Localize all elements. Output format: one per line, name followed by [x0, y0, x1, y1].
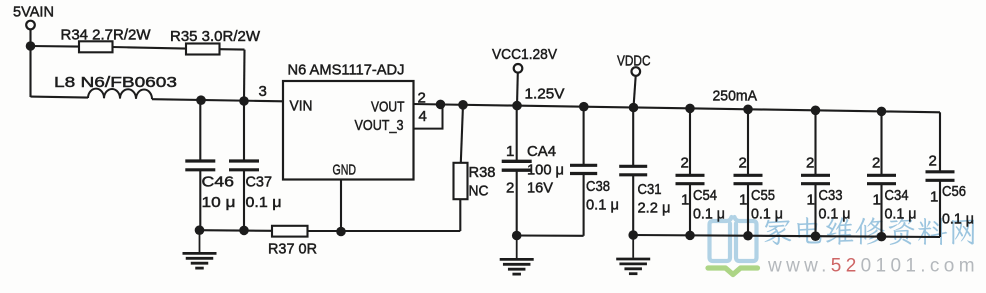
node: pin4 join — [436, 100, 446, 110]
svg-text:C55: C55 — [751, 187, 775, 204]
svg-text:2: 2 — [806, 155, 814, 172]
wire: VOUT pin 2 to output rail — [414, 104, 941, 112]
capacitor C54 — [676, 108, 705, 235]
svg-text:C46: C46 — [202, 173, 235, 190]
wire: L8 to VIN pin 3 — [152, 99, 283, 101]
svg-text:250mA: 250mA — [713, 88, 758, 105]
capacitor C38 — [570, 107, 597, 236]
svg-text:1: 1 — [930, 189, 938, 206]
watermark logo: green base — [708, 268, 758, 275]
svg-text:0.1 μ: 0.1 μ — [819, 205, 851, 222]
wire: C46/C37 node to R37 — [200, 229, 273, 232]
node: C37 ground junction — [239, 226, 249, 236]
svg-text:L8 N6/FB0603: L8 N6/FB0603 — [54, 74, 177, 91]
svg-text:C54: C54 — [693, 187, 717, 204]
capacitor C46 — [185, 100, 215, 230]
node: CA4 ground junction — [512, 231, 522, 241]
wire: node to R34 — [31, 45, 80, 48]
svg-text:16V: 16V — [527, 180, 553, 197]
svg-text:1.25V: 1.25V — [525, 86, 565, 103]
svg-text:0.1 μ: 0.1 μ — [942, 211, 974, 228]
svg-text:0.1 μ: 0.1 μ — [885, 205, 917, 222]
resistor R37 — [272, 226, 308, 237]
wire: R35 right — [220, 48, 245, 50]
svg-text:2: 2 — [681, 155, 689, 172]
capacitor C37 — [229, 101, 259, 230]
svg-text:www.520101.com: www.520101.com — [767, 256, 979, 277]
svg-text:4: 4 — [419, 108, 427, 125]
ground (right) — [616, 235, 650, 274]
svg-text:0.1 μ: 0.1 μ — [751, 205, 783, 222]
svg-text:R38: R38 — [469, 164, 496, 181]
capacitor CA4 — [502, 106, 532, 236]
resistor R35 — [186, 44, 220, 55]
svg-text:2: 2 — [872, 155, 880, 172]
svg-text:C37: C37 — [246, 173, 273, 190]
op-amp/regulator U N6 AMS1117-ADJ body — [283, 81, 414, 180]
svg-text:VOUT_3: VOUT_3 — [355, 117, 404, 134]
capacitor C31 — [619, 108, 647, 236]
svg-text:1: 1 — [506, 143, 514, 160]
node: C34 ground junction — [877, 232, 887, 242]
node: C46 ground junction — [195, 225, 205, 235]
svg-text:NC: NC — [469, 183, 489, 200]
resistor R34 — [79, 41, 113, 52]
wire: R38 down to ground rail — [459, 199, 461, 231]
svg-text:VOUT: VOUT — [371, 99, 405, 116]
node: VDDC/C31 tap — [629, 103, 639, 113]
svg-text:CA4: CA4 — [527, 143, 556, 160]
resistor R38 — [454, 163, 468, 199]
node: C33 ground junction — [811, 231, 821, 241]
wire: rail to R38 — [461, 105, 463, 163]
node: C54 ground junction — [685, 231, 695, 241]
node: VCC/CA4 tap — [512, 101, 522, 111]
wire: VOUT_3 pin 4 loop — [414, 104, 443, 129]
svg-text:C38: C38 — [586, 178, 610, 195]
wire: right ground rail — [633, 235, 940, 237]
svg-text:3: 3 — [259, 83, 267, 100]
svg-text:N6 AMS1117-ADJ: N6 AMS1117-ADJ — [288, 62, 405, 79]
wire: R34 to R35 — [113, 47, 187, 49]
svg-text:0.1 μ: 0.1 μ — [693, 205, 725, 222]
wire: C38 bottom to CA4 node — [517, 234, 584, 236]
node: C31 ground junction — [628, 230, 638, 240]
wire: terminal down to L8 row — [29, 29, 31, 97]
node: C46 tap — [196, 95, 206, 105]
svg-text:10 μ: 10 μ — [202, 194, 236, 211]
capacitor C55 — [734, 109, 763, 235]
svg-text:R37 0R: R37 0R — [268, 241, 317, 258]
svg-text:VIN: VIN — [290, 98, 313, 115]
ground (middle) — [500, 236, 534, 275]
node: C54 tap — [685, 104, 695, 114]
node: R38 tap — [458, 100, 468, 110]
watermark logo: open book — [710, 217, 757, 261]
svg-text:2: 2 — [506, 180, 514, 197]
node: C55 tap — [743, 105, 753, 115]
node: C38 tap — [579, 102, 589, 112]
svg-text:1: 1 — [739, 192, 747, 209]
terminal VCC — [514, 64, 523, 73]
wire: down to L8 output node — [243, 50, 246, 101]
inductor L8 — [31, 97, 89, 98]
svg-text:100 μ: 100 μ — [527, 161, 564, 178]
svg-text:R34 2.7R/2W: R34 2.7R/2W — [61, 27, 152, 44]
svg-text:GND: GND — [333, 162, 357, 179]
node: C34 tap — [877, 107, 887, 117]
svg-text:C34: C34 — [885, 187, 909, 204]
node: input junction — [26, 41, 36, 51]
wire: IC GND pin down — [340, 180, 342, 232]
svg-text:2: 2 — [739, 155, 747, 172]
svg-text:1: 1 — [873, 192, 881, 209]
capacitor C33 — [801, 110, 830, 236]
svg-text:VCC1.28V: VCC1.28V — [492, 46, 557, 63]
svg-text:C56: C56 — [942, 183, 966, 200]
wire: R37 to GND/R38 node — [308, 230, 461, 232]
wire: VDDC terminal to rail — [634, 76, 636, 108]
svg-text:1: 1 — [681, 192, 689, 209]
svg-text:5VAIN: 5VAIN — [13, 4, 54, 21]
svg-text:C33: C33 — [819, 187, 843, 204]
node: GND pin junction — [336, 227, 346, 237]
svg-text:1: 1 — [807, 192, 815, 209]
svg-text:C31: C31 — [638, 181, 662, 198]
wire: VCC terminal to rail — [516, 73, 519, 106]
terminal 5VAIN — [26, 21, 35, 30]
node: C37 / R35 tap — [239, 96, 249, 106]
capacitor C34 — [867, 111, 896, 236]
node: C55 ground junction — [743, 231, 753, 241]
terminal VDDC — [632, 67, 641, 76]
watermark chinese text 家电维修资料网 — [765, 217, 975, 245]
node: C33 tap — [811, 106, 821, 116]
ground (left) — [183, 230, 217, 268]
capacitor C56 — [926, 112, 955, 237]
svg-text:0.1 μ: 0.1 μ — [586, 196, 619, 213]
svg-text:2: 2 — [929, 153, 937, 170]
svg-text:2.2 μ: 2.2 μ — [638, 199, 671, 216]
svg-text:R35 3.0R/2W: R35 3.0R/2W — [170, 28, 261, 45]
svg-text:0.1 μ: 0.1 μ — [246, 194, 282, 211]
